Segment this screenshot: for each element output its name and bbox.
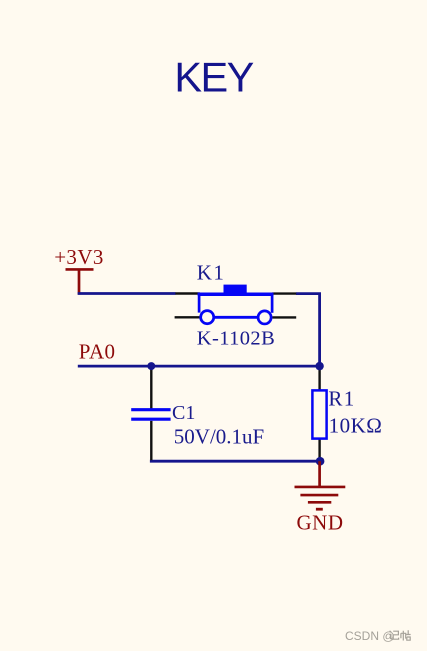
svg-text:R1: R1 [328,386,355,410]
svg-text:10KΩ: 10KΩ [329,413,383,437]
svg-text:GND: GND [297,510,344,534]
svg-text:C1: C1 [172,402,195,424]
svg-text:K1: K1 [197,260,225,284]
svg-text:KEY: KEY [174,54,253,101]
svg-text:+3V3: +3V3 [54,245,104,269]
svg-text:50V/0.1uF: 50V/0.1uF [174,424,264,448]
svg-text:CSDN @: CSDN @ [345,629,395,643]
svg-text:PA0: PA0 [79,339,116,363]
svg-text:K-1102B: K-1102B [197,328,275,350]
